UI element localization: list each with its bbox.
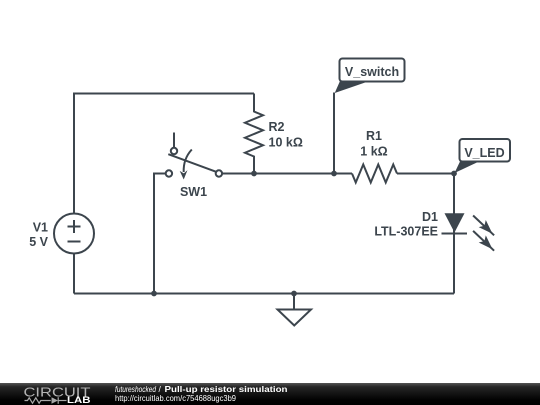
node switch-branch bottom junction <box>151 291 157 297</box>
svg-text:LAB: LAB <box>67 395 91 405</box>
wire R1 to V_LED node <box>397 173 454 175</box>
svg-text:LTL-307EE: LTL-307EE <box>374 224 438 238</box>
svg-text:1 kΩ: 1 kΩ <box>360 144 387 158</box>
LED D1 <box>442 213 495 250</box>
node R2-bottom junction <box>251 171 257 177</box>
svg-text:R2: R2 <box>269 120 285 134</box>
node V_LED junction <box>451 171 457 177</box>
flag V_LED <box>455 139 511 173</box>
svg-text:R1: R1 <box>366 129 382 143</box>
node V_switch junction <box>331 171 337 177</box>
wire mid rail <box>222 173 352 175</box>
wire top rail <box>74 94 254 214</box>
footer bar <box>0 383 540 405</box>
svg-text:V_LED: V_LED <box>464 146 504 160</box>
voltage source V1 <box>54 214 94 254</box>
logo mini schematic <box>25 397 67 404</box>
wire V_switch stem <box>333 93 335 174</box>
svg-text:V_switch: V_switch <box>345 65 399 79</box>
wire right rail / LED branch <box>453 174 455 294</box>
switch SW1 <box>166 133 222 180</box>
svg-text:http://circuitlab.com/c754688u: http://circuitlab.com/c754688ugc3b9 <box>115 393 236 403</box>
svg-text:V1: V1 <box>33 220 48 234</box>
svg-text:5 V: 5 V <box>29 235 48 249</box>
wire switch left branch <box>154 174 166 294</box>
wire V1 bottom lead <box>73 254 75 294</box>
ground <box>278 294 312 326</box>
svg-text:10 kΩ: 10 kΩ <box>269 136 303 150</box>
resistor R1 <box>352 165 397 183</box>
resistor R2 <box>245 94 263 174</box>
node ground junction <box>291 291 297 297</box>
wire bottom rail <box>74 293 454 295</box>
svg-text:D1: D1 <box>422 210 438 224</box>
flag V_switch <box>335 59 405 94</box>
svg-text:SW1: SW1 <box>180 185 207 199</box>
